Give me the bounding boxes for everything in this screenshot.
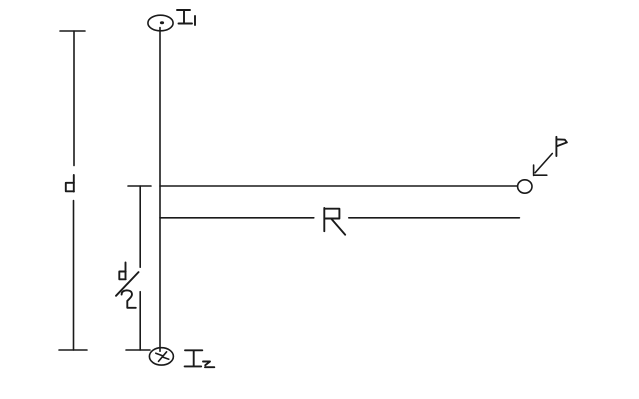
dimension R line, left segment	[160, 217, 314, 219]
label P	[556, 137, 567, 156]
wire: vertical conductor carrying I1 and I2	[159, 28, 161, 352]
dot of I1 symbol	[160, 21, 164, 24]
label d	[66, 175, 74, 192]
dimension d vertical line, lower segment	[73, 201, 75, 351]
wire from conductor to point P	[160, 185, 518, 187]
dimension R line, right segment	[349, 217, 520, 219]
label I1	[177, 10, 195, 25]
dimension d/2 vertical line, lower segment	[139, 292, 141, 350]
dimension d/2 vertical line, upper segment	[139, 186, 141, 267]
dimension d/2 top cap	[128, 185, 151, 187]
cross of I2 symbol	[156, 352, 169, 362]
current symbol I2 (circle with cross, current into page)	[149, 348, 173, 365]
label d/2: slash	[116, 272, 139, 296]
label d/2: letter d	[119, 263, 125, 280]
dimension d/2 bottom cap	[126, 349, 150, 351]
dimension d vertical line, upper segment	[73, 31, 75, 166]
arrowhead ticks	[534, 165, 547, 175]
dimension d bottom cap	[59, 349, 87, 351]
current symbol I1 (circle with dot, current out of page)	[148, 15, 173, 31]
arrow shaft pointing to P	[535, 154, 552, 173]
label R	[324, 208, 345, 235]
point P marker (small circle)	[518, 180, 532, 193]
dimension d top cap	[60, 30, 85, 32]
label I2	[185, 350, 215, 367]
label d/2: digit 2	[122, 290, 136, 308]
